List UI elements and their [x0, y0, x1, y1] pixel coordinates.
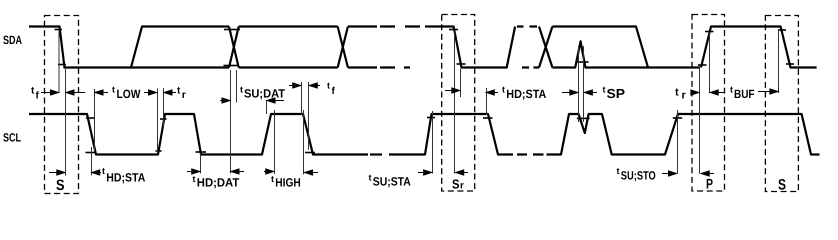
tick S fall 70% [55, 29, 63, 31]
arrow tr2 left [718, 92, 725, 94]
tick SCL rise1 bottom [156, 150, 162, 152]
dimension arrows row 2 [49, 169, 714, 176]
tick Sr fall bottom [457, 63, 466, 65]
svg-text:t: t [502, 85, 505, 95]
svg-text:t: t [369, 173, 372, 183]
svg-text:SP: SP [607, 86, 626, 101]
tick SCL fall0 bottom [86, 152, 96, 154]
arrow tSUDAT right [220, 100, 223, 102]
arrow tf2 right [289, 85, 293, 87]
extension tSP left x578.4 [578, 46, 580, 122]
extension tSUSTA right x432 [432, 111, 434, 174]
extension P rise x699.5 [699, 64, 701, 174]
arrow tSUSTO right [662, 173, 669, 175]
tick SCL rise5 top [673, 117, 682, 119]
extension SDA S fall x66 [65, 69, 67, 176]
arrow tHDDAT left [237, 171, 244, 173]
wire SDA rise at P, high, fall at S2, low end [701, 27, 817, 68]
dashed box Sr (repeated start) [442, 15, 475, 192]
wire SDA waveform [29, 27, 817, 68]
tick SCL fall0 top [86, 117, 94, 119]
arrow tf1 right-pointing [41, 92, 51, 94]
extension tr1 right x163.5 [163, 88, 165, 126]
tick marks on transitions [55, 30, 795, 153]
dashed box S (start condition) [45, 16, 79, 194]
arrow tr1 left [170, 92, 176, 94]
wire SDA post-rise top dashes [517, 25, 537, 27]
extension tHIGH right x303.8 [303, 110, 305, 175]
extension tLOW right x157 [157, 89, 159, 153]
svg-text:HD;DAT: HD;DAT [197, 176, 240, 190]
arrow tSUDAT left [273, 100, 284, 102]
svg-text:r: r [460, 181, 464, 192]
extension tf2 left x301.2 [301, 82, 303, 115]
extension tHDDAT left x200 [200, 153, 202, 174]
extension tLOW left x94.6 [94, 89, 96, 151]
arrow tSUSTA right [418, 172, 424, 174]
svg-text:HD;STA: HD;STA [106, 171, 145, 185]
arrow tHDSTA1 left [98, 172, 101, 174]
extension Sr fall bottom x460.7 [460, 69, 462, 97]
wire SCL waveform [29, 114, 820, 155]
svg-text:t: t [102, 166, 105, 176]
dashed box P (stop condition) [692, 15, 725, 192]
svg-text:BUF: BUF [734, 87, 755, 101]
arrow tHDSTA2 right [445, 90, 452, 92]
arrow tf1 leftward from right [73, 92, 86, 94]
tick P rise bottom [698, 64, 707, 66]
svg-text:SDA: SDA [3, 33, 22, 47]
svg-text:SU;STA: SU;STA [373, 174, 411, 188]
arrow tHDSTA2 left [493, 92, 498, 94]
wire SDA crossover X2 [338, 27, 348, 68]
wire SCL main left section [29, 114, 368, 155]
svg-text:t: t [193, 174, 196, 184]
svg-text:SCL: SCL [3, 131, 21, 145]
tick S fall 30% [58, 64, 66, 66]
tick SCL rise1 top [160, 118, 167, 120]
extension Sr fall top x454 [454, 31, 456, 174]
extension tSUDAT right x266.4 [266, 100, 268, 114]
svg-text:S: S [778, 177, 786, 194]
dashed box S2 (start condition right) [765, 16, 798, 192]
wire SDA bottom dashes [380, 66, 410, 68]
arrow tf2 left [315, 85, 320, 87]
extension tBUF right x778.6 [778, 31, 780, 93]
tick SCL fall2 bottom [305, 152, 315, 154]
svg-text:t: t [617, 166, 620, 176]
extension tf1 left x60 [58, 31, 60, 94]
svg-text:SU;DAT: SU;DAT [244, 87, 286, 101]
wire SCL mid section [402, 114, 513, 155]
dimension arrows row 1 [41, 83, 778, 103]
wire SDA low rail with spike (tSP glitch) [552, 41, 700, 67]
tick P rise top [705, 31, 714, 33]
arrow S marker right [49, 172, 57, 174]
arrow tHDDAT right [187, 171, 191, 173]
svg-text:S: S [56, 177, 65, 194]
svg-text:SU;STO: SU;STO [621, 168, 656, 182]
extension X1 right x236.6 [236, 70, 238, 103]
tick SCL notch 70% [577, 117, 590, 119]
extension tSP right x583.8 [583, 46, 585, 122]
wire SDA low rail after S [64, 66, 230, 68]
tick X1 top [224, 29, 240, 31]
tick SCL fall3 top [483, 117, 493, 119]
svg-text:r: r [182, 89, 186, 101]
arrow tSP right [562, 92, 570, 94]
tick SCL fall1 bottom [196, 151, 207, 153]
svg-text:HD;STA: HD;STA [506, 87, 546, 101]
wire SCL low dashes 2 [517, 153, 544, 155]
tick SDA spike 30% [576, 61, 589, 63]
extension tHIGH left x274 [274, 110, 276, 174]
extension tHDSTA2 right x486 [486, 88, 488, 115]
wire SDA top rail to fall [552, 27, 648, 68]
extension tr2 right x710.7 [709, 32, 711, 93]
extension tf2 right x308.8 [308, 82, 310, 150]
arrow tLOW left [101, 92, 108, 94]
wire SDA rails after X2 [348, 27, 377, 68]
extension tHDSTA1 right x91.5 [91, 147, 93, 176]
svg-text:t: t [603, 85, 606, 95]
wire SDA crossover X1 [229, 27, 239, 68]
arrow tLOW right [144, 92, 150, 94]
svg-text:t: t [112, 85, 115, 95]
wire SDA top solid into Sr fall [425, 27, 462, 68]
wire SDA rails between X1 and X2 [239, 27, 338, 68]
arrow tHIGH left / tSUSTA left [311, 172, 318, 174]
wire SDA rise branch [131, 27, 229, 68]
svg-text:t: t [675, 87, 679, 99]
wire SDA high start + S fall [29, 27, 65, 68]
svg-text:t: t [730, 84, 733, 94]
wire SCL low dashes 1 [370, 153, 402, 155]
extension X1 left x230.5 [230, 70, 232, 174]
svg-text:S: S [452, 177, 460, 192]
tick SCL rise4 top [427, 117, 435, 119]
arrow tSP left [591, 92, 597, 94]
tick S2 fall bottom [786, 63, 794, 65]
wire SDA top dashes [380, 25, 420, 27]
arrow P marker left [708, 173, 715, 175]
measurement extension lines [59, 31, 779, 176]
tick X1 bottom [224, 65, 238, 67]
arrow tr2 right [692, 92, 695, 94]
arrow Sr marker left [462, 172, 468, 174]
tick Sr fall top [449, 29, 458, 31]
svg-text:t: t [240, 84, 243, 94]
svg-text:HIGH: HIGH [275, 176, 301, 190]
svg-text:LOW: LOW [117, 87, 142, 101]
arrow tBUF right [758, 91, 770, 93]
wire SDA low after Sr, rise [461, 27, 516, 68]
wire SDA crossover X3 [539, 27, 552, 68]
extension tSUSTO right x677 [677, 110, 679, 174]
tick S2 fall top [778, 29, 786, 31]
svg-text:r: r [682, 90, 687, 102]
arrow tHIGH right [264, 171, 266, 173]
wire SDA post-rise bottom dashes [522, 66, 539, 68]
svg-text:t: t [271, 174, 274, 184]
svg-text:P: P [706, 176, 713, 192]
wire SCL pulse with tSP notch, to end [547, 114, 820, 155]
svg-text:t: t [327, 81, 330, 91]
